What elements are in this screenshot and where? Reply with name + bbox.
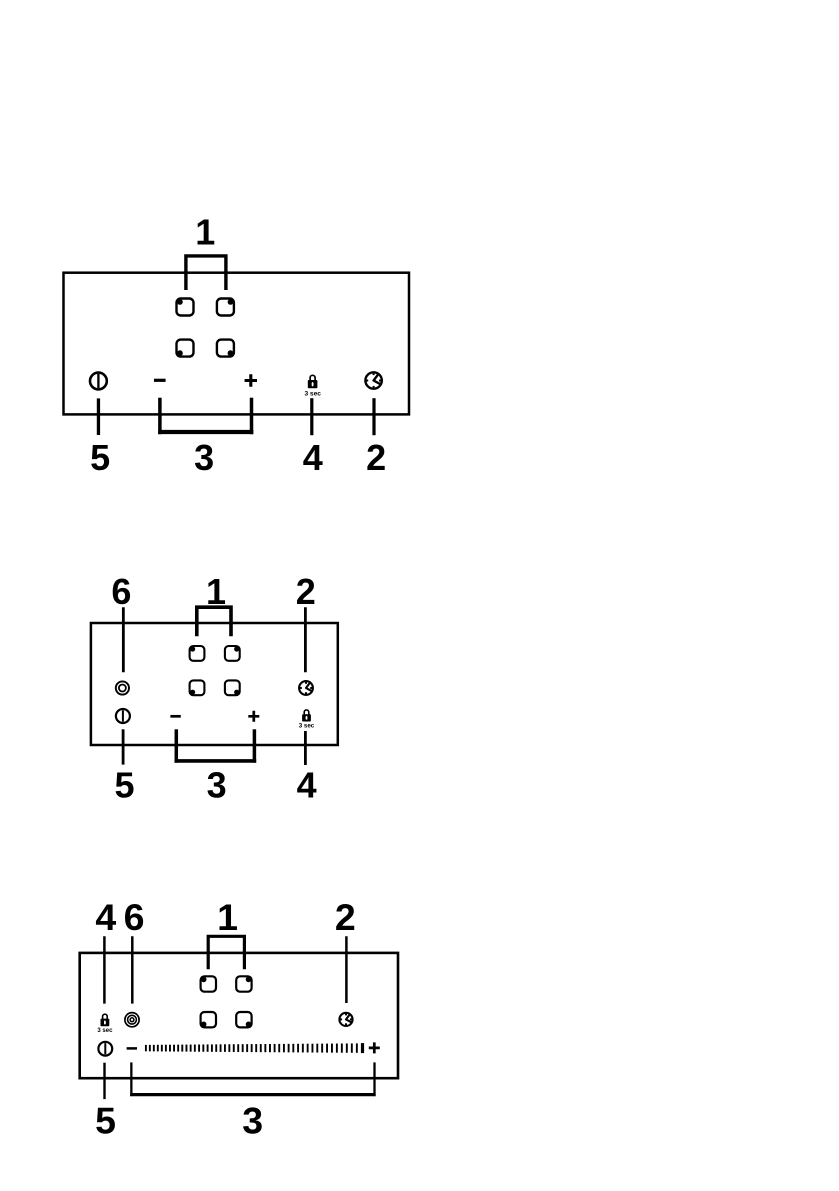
svg-text:5: 5 (114, 765, 134, 806)
zone key front-right (panel C) (236, 1012, 251, 1027)
leader line to label 2 (372, 398, 375, 435)
svg-text:2: 2 (335, 896, 356, 938)
svg-text:6: 6 (111, 571, 131, 612)
minus key (panel C) (127, 1047, 137, 1050)
zone key rear-left (panel C) (201, 976, 216, 991)
svg-text:5: 5 (95, 1099, 116, 1141)
callout bracket for label 1 (panel B) (197, 607, 231, 636)
zone key rear-left (panel B) (190, 646, 205, 661)
zone key front-right (dot bottom-right) (217, 340, 234, 357)
zone key rear-right (panel B) (225, 646, 240, 661)
leader line from label 2 (panel B) (304, 607, 307, 672)
svg-text:3: 3 (242, 1099, 263, 1141)
panel A outline (64, 273, 410, 415)
leader bracket to label 3 (minus/plus span) (158, 398, 162, 435)
leader line to label 4 (panel B) (304, 731, 307, 765)
plus key (245, 374, 257, 386)
leader bracket to label 3 (panel B) (175, 729, 179, 762)
plus key (panel C) (369, 1042, 380, 1053)
leader line to label 5 (panel B) (122, 729, 125, 764)
svg-text:6: 6 (124, 896, 145, 938)
svg-text:4: 4 (303, 437, 323, 478)
on/off key (panel B) (116, 709, 130, 723)
timer key (clock, panel B) (299, 681, 313, 695)
leader line from label 2 (panel C) (345, 936, 348, 1003)
leader line from label 4 (panel C) (103, 936, 106, 1003)
svg-text:2: 2 (366, 437, 386, 478)
zone key rear-right (panel C) (236, 976, 251, 991)
svg-text:1: 1 (217, 896, 238, 938)
key-lock key (panel B) (302, 710, 311, 722)
zone key front-left (panel B) (190, 680, 205, 695)
svg-text:5: 5 (90, 437, 110, 478)
leader line from label 6 (panel C) (131, 936, 134, 1003)
timer key (clock) (365, 372, 381, 388)
timer key (clock, panel C) (339, 1013, 352, 1026)
panel C outline (80, 953, 398, 1078)
zone key rear-right (dot top-right) (217, 299, 234, 316)
on/off key (panel C) (98, 1042, 112, 1056)
zone key rear-left (dot top-left) (177, 299, 194, 316)
leader bracket to label 3 (panel C, slider span) (130, 1062, 132, 1096)
minus key (154, 379, 166, 382)
plus key (panel B) (248, 711, 259, 722)
callout bracket for label 1 (panel C) (208, 936, 244, 969)
svg-text:3: 3 (194, 437, 214, 478)
svg-text:3 sec: 3 sec (97, 1028, 113, 1034)
key-lock key (padlock) (308, 375, 318, 388)
callout bracket for label 1 (panel A) (186, 256, 226, 290)
slider scale (tick ramp) (145, 1043, 364, 1053)
panel B outline (91, 623, 338, 745)
svg-text:1: 1 (195, 211, 215, 252)
leader line to label 4 (310, 398, 313, 435)
leader line from label 6 (122, 607, 125, 672)
svg-text:2: 2 (296, 571, 316, 612)
dual-circuit key (double ring, panel B) (116, 681, 129, 694)
on/off key (power symbol) (90, 373, 107, 390)
leader line to label 5 (panel C) (103, 1063, 105, 1099)
svg-text:3: 3 (207, 765, 227, 806)
svg-text:3 sec: 3 sec (304, 391, 321, 398)
zone key front-left (dot bottom-left) (177, 340, 194, 357)
dual-circuit key (triple ring, panel C) (125, 1013, 139, 1027)
svg-text:4: 4 (297, 765, 317, 806)
svg-text:4: 4 (95, 896, 116, 938)
leader line to label 5 (97, 398, 100, 435)
zone key front-right (panel B) (225, 680, 240, 695)
svg-text:3 sec: 3 sec (299, 722, 315, 729)
zone key front-left (panel C) (201, 1012, 216, 1027)
minus key (panel B) (170, 715, 180, 718)
key-lock key (panel C) (101, 1014, 110, 1026)
